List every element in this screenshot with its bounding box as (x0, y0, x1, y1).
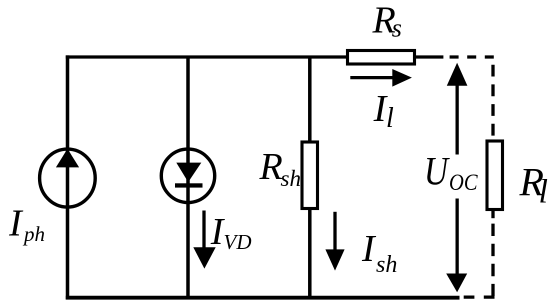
wire: diode branch (186, 57, 190, 298)
svg-text:sh: sh (376, 252, 397, 278)
svg-text:R: R (259, 146, 283, 188)
arrow I_l (load current) (350, 69, 412, 87)
arrow I_sh (shunt current) (325, 212, 344, 271)
label U_OC backing (424, 155, 480, 199)
svg-text:I: I (8, 202, 24, 244)
arrow U_OC (open-circuit voltage, double-headed) (446, 63, 467, 292)
label I_VD (210, 211, 252, 254)
label I_sh (361, 228, 397, 278)
svg-text:VD: VD (224, 230, 252, 254)
wire: right dashed branch lower (491, 224, 494, 296)
wire: top dashed segment to load (450, 55, 496, 58)
svg-text:I: I (361, 228, 377, 270)
resistor R_sh (302, 142, 318, 209)
label R_sh (259, 146, 301, 191)
label I_l (373, 88, 394, 134)
svg-text:ph: ph (22, 222, 45, 246)
wire: left branch (photocurrent) (66, 55, 70, 299)
diode VD (161, 149, 214, 202)
wire: bottom bus (66, 296, 460, 300)
wire: right dashed branch upper (491, 65, 494, 141)
label R_s (372, 0, 402, 42)
resistor R_s (348, 51, 415, 65)
wire: shunt branch (308, 57, 312, 298)
current source I_ph (40, 149, 96, 207)
svg-text:l: l (539, 173, 548, 210)
svg-text:s: s (392, 13, 402, 42)
arrow I_VD (diode current) (193, 211, 215, 269)
svg-text:U: U (424, 148, 451, 193)
label U_OC (424, 148, 478, 195)
svg-text:l: l (386, 103, 394, 134)
label R_l (519, 160, 548, 211)
wire: bottom dashed segment (464, 295, 495, 298)
svg-text:OC: OC (449, 170, 478, 195)
wire: right dashed branch lower (stub at resistor) (491, 211, 494, 219)
svg-text:sh: sh (281, 166, 301, 191)
wire: top bus (left section) (66, 55, 350, 58)
resistor R_l (487, 141, 503, 210)
wire: top bus (R_s right lead) (412, 55, 443, 58)
label I_ph (8, 202, 45, 246)
